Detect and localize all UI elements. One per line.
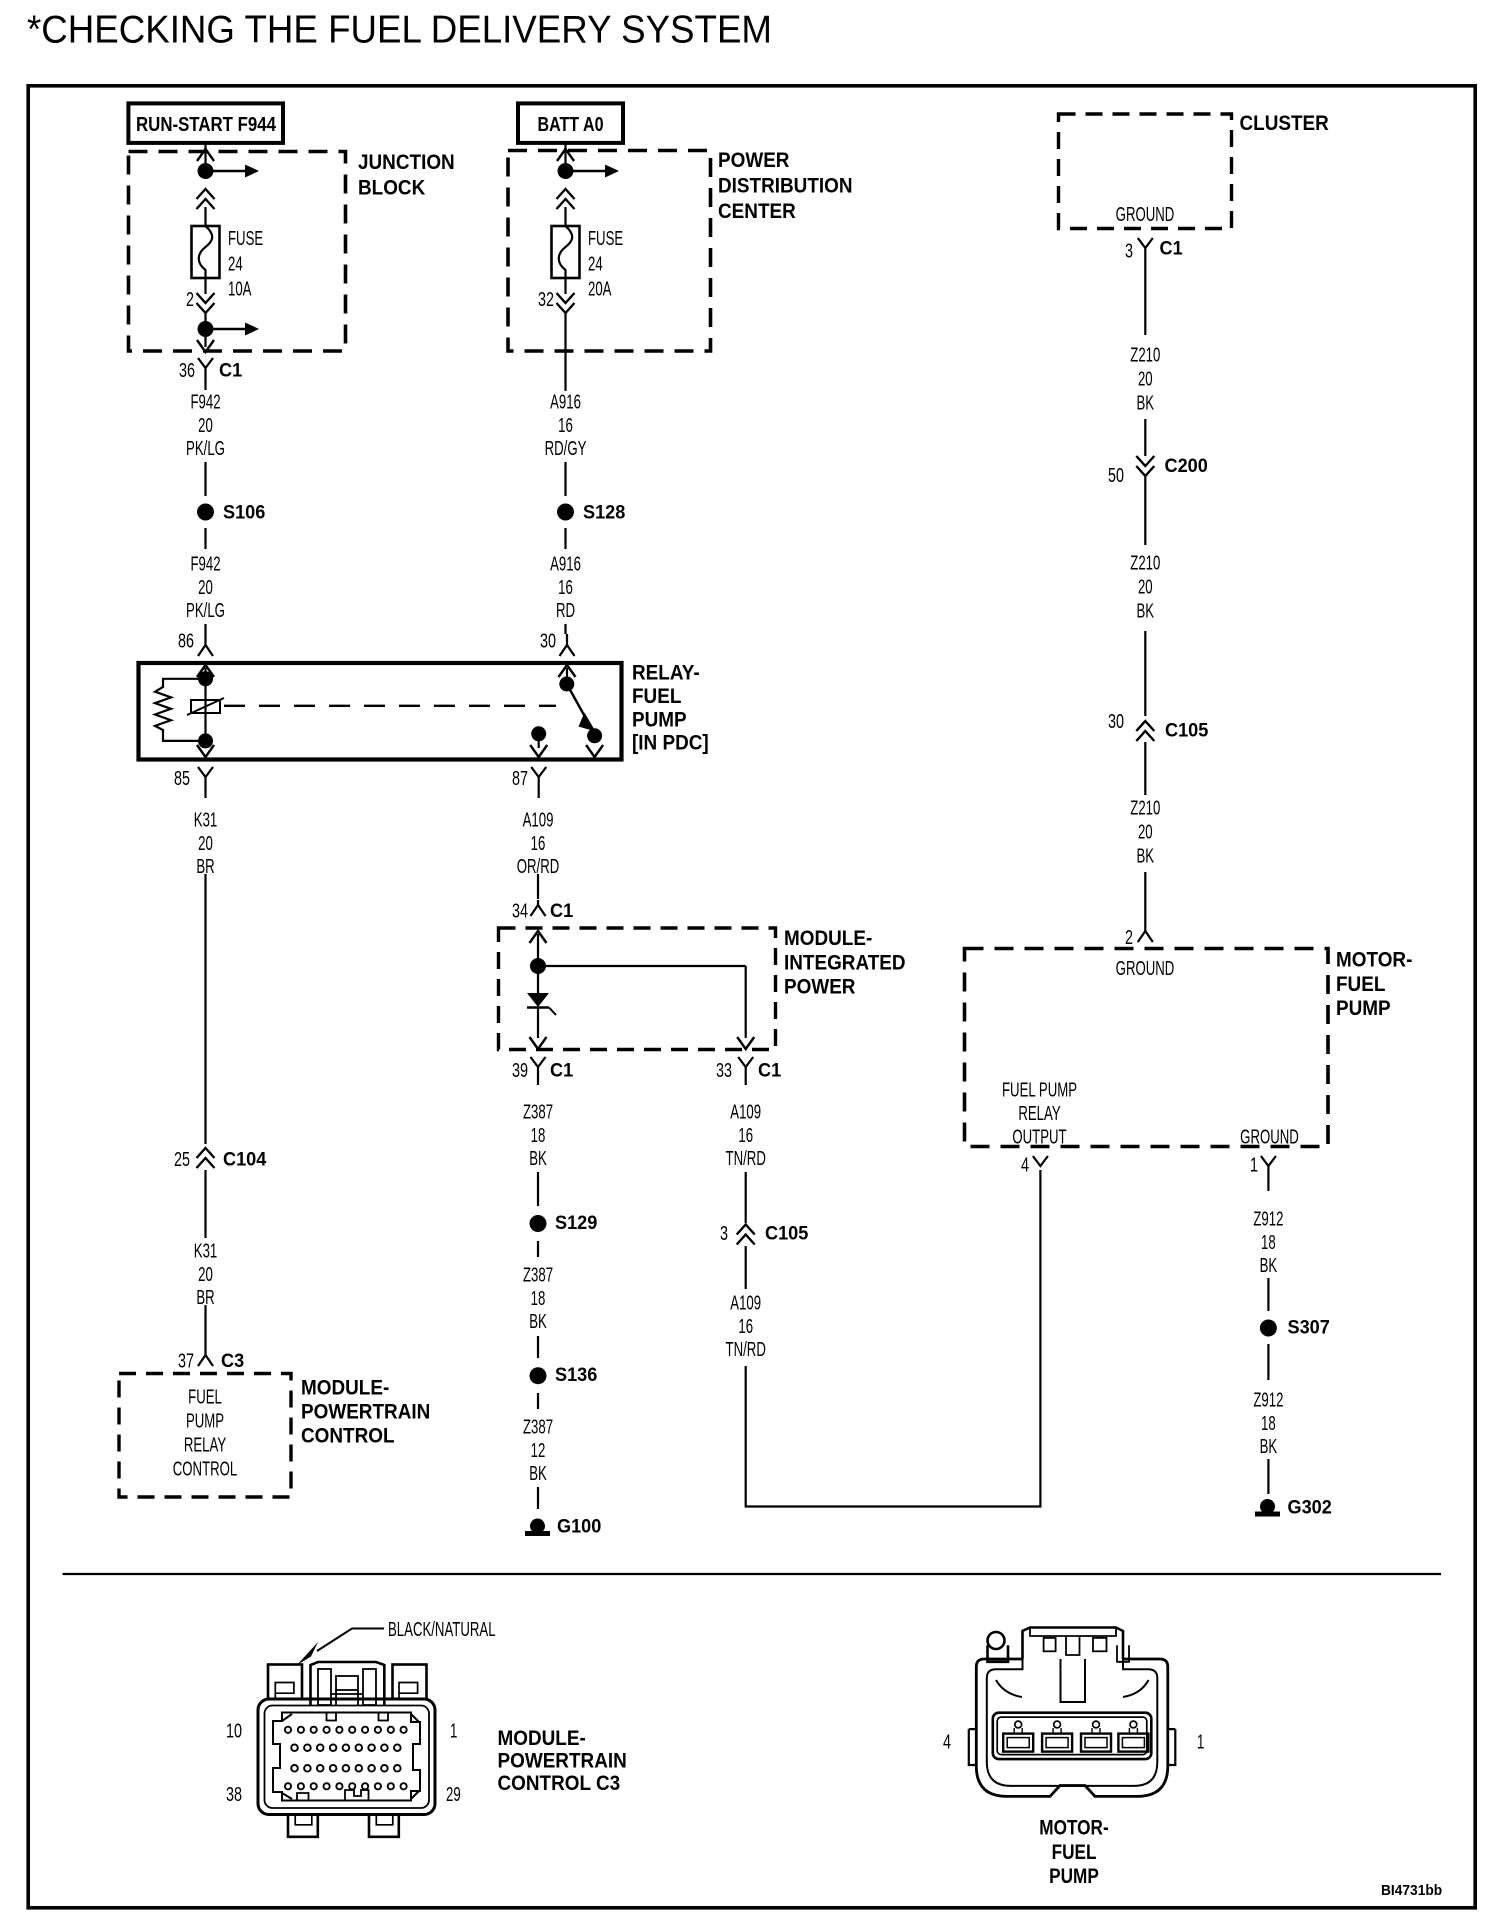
svg-text:3: 3 — [1125, 239, 1133, 262]
svg-text:BK: BK — [1260, 1435, 1278, 1457]
svg-text:C1: C1 — [550, 900, 573, 922]
double chevron up — [557, 189, 575, 209]
svg-text:25: 25 — [174, 1148, 190, 1171]
wire label A109 16 TN/RD — [726, 1101, 766, 1170]
relay coil element — [187, 698, 224, 715]
svg-text:16: 16 — [738, 1124, 753, 1146]
svg-text:29: 29 — [446, 1783, 461, 1805]
svg-text:TN/RD: TN/RD — [726, 1338, 766, 1360]
svg-text:PUMP: PUMP — [1336, 997, 1391, 1020]
wire Z387 — [537, 1487, 539, 1509]
wire A109 route to fuel pump pin 4 — [746, 1170, 1041, 1507]
wire label K31 20 BR — [194, 1240, 217, 1309]
connector C3 inner cavity — [273, 1713, 420, 1801]
svg-text:Z210: Z210 — [1130, 344, 1160, 366]
svg-text:INTEGRATED: INTEGRATED — [784, 951, 906, 974]
svg-text:20: 20 — [1138, 576, 1153, 598]
svg-text:BLACK/NATURAL: BLACK/NATURAL — [388, 1618, 496, 1640]
wire — [204, 207, 206, 226]
ground G302 — [1255, 1499, 1280, 1517]
inline connector C200 — [1136, 456, 1154, 476]
splice S129 — [530, 1215, 547, 1232]
relay linkage dashed line — [224, 705, 556, 707]
svg-text:POWER: POWER — [718, 149, 790, 172]
switch contact 87a — [587, 728, 602, 743]
fuse 24 20A (PDC) — [552, 226, 580, 278]
svg-text:FUSE: FUSE — [228, 227, 263, 249]
wire label A109 16 OR/RD — [517, 809, 560, 878]
svg-text:FUSE: FUSE — [588, 227, 623, 249]
relay pin 85 connector — [198, 767, 213, 798]
splice S307 — [1260, 1320, 1277, 1337]
svg-text:PK/LG: PK/LG — [186, 437, 225, 459]
svg-text:2: 2 — [186, 288, 194, 311]
wire inside MIP — [537, 1008, 539, 1038]
connector pin 2 motor-fuel pump — [1138, 929, 1153, 942]
wire label Z387 18 BK — [523, 1101, 553, 1170]
relay pin 87 connector — [531, 767, 546, 798]
wire Z387 — [537, 1241, 539, 1257]
connector motor-fuel pump terminals — [1003, 1721, 1148, 1752]
wire label F942 20 PK/LG — [186, 553, 225, 622]
svg-text:OUTPUT: OUTPUT — [1012, 1126, 1066, 1148]
splice S128 — [557, 504, 574, 521]
svg-text:18: 18 — [531, 1287, 546, 1309]
wire — [204, 313, 206, 329]
double chevron down — [557, 293, 575, 313]
label MODULE-INTEGRATED POWER — [784, 927, 906, 999]
junction block box — [129, 152, 346, 352]
svg-text:33: 33 — [716, 1059, 732, 1082]
svg-text:Z387: Z387 — [523, 1264, 553, 1286]
bus arrow right — [206, 323, 260, 336]
motor-fuel pump box — [965, 949, 1329, 1147]
svg-text:GROUND: GROUND — [1116, 957, 1175, 979]
svg-text:Z912: Z912 — [1253, 1389, 1283, 1411]
relay pin 85 exit chevron — [197, 745, 214, 757]
svg-text:34: 34 — [512, 899, 528, 922]
wire label A916 16 RD/GY — [545, 391, 587, 460]
svg-text:BK: BK — [1136, 845, 1154, 867]
svg-text:PUMP: PUMP — [632, 708, 687, 731]
svg-text:36: 36 — [179, 359, 195, 382]
svg-text:CONTROL C3: CONTROL C3 — [498, 1772, 621, 1795]
svg-text:MODULE-: MODULE- — [301, 1377, 389, 1400]
relay pin 30 — [560, 634, 575, 656]
wire — [564, 207, 566, 226]
relay-fuel pump box — [139, 663, 622, 760]
svg-text:32: 32 — [538, 288, 554, 311]
inline connector C105 — [737, 1225, 755, 1245]
svg-text:BI4731bb: BI4731bb — [1381, 1882, 1443, 1898]
svg-text:CENTER: CENTER — [718, 200, 796, 223]
module-powertrain control box — [119, 1374, 291, 1498]
svg-text:G100: G100 — [557, 1515, 601, 1537]
svg-text:Z210: Z210 — [1130, 552, 1160, 574]
svg-text:16: 16 — [558, 414, 573, 436]
svg-text:S307: S307 — [1288, 1316, 1330, 1338]
wire inside MIP — [537, 934, 539, 993]
wire label F942 20 PK/LG — [186, 391, 225, 460]
wire K31 — [204, 1170, 206, 1238]
svg-text:C1: C1 — [758, 1059, 781, 1081]
label MOTOR-FUEL PUMP — [1336, 949, 1412, 1021]
svg-text:A916: A916 — [550, 553, 581, 575]
svg-text:FUEL: FUEL — [1052, 1840, 1097, 1864]
svg-text:10: 10 — [226, 1719, 242, 1742]
wire Z387 — [537, 1172, 539, 1206]
svg-text:F942: F942 — [190, 553, 220, 575]
junction dot — [558, 163, 574, 179]
wire — [204, 337, 206, 347]
bus arrow right — [206, 165, 260, 178]
svg-text:RD: RD — [556, 599, 575, 621]
svg-text:24: 24 — [588, 253, 603, 275]
svg-text:BK: BK — [529, 1462, 547, 1484]
wire label A109 16 TN/RD — [726, 1292, 766, 1361]
separator line — [63, 1573, 1442, 1575]
wire K31 long — [204, 874, 206, 1144]
double chevron up — [197, 189, 215, 209]
svg-text:C3: C3 — [221, 1350, 244, 1372]
svg-text:FUEL PUMP: FUEL PUMP — [1002, 1079, 1077, 1101]
svg-text:Z210: Z210 — [1130, 797, 1160, 819]
wire label Z387 18 BK — [523, 1264, 553, 1333]
svg-text:20: 20 — [198, 832, 213, 854]
connector pin 3 C1 — [1138, 238, 1153, 248]
svg-text:CLUSTER: CLUSTER — [1240, 112, 1330, 135]
svg-text:BK: BK — [1136, 392, 1154, 414]
label FUEL PUMP RELAY CONTROL — [173, 1386, 238, 1480]
svg-text:C105: C105 — [765, 1222, 808, 1244]
wire F942 — [204, 528, 206, 549]
svg-text:DISTRIBUTION: DISTRIBUTION — [718, 174, 853, 197]
svg-text:Z387: Z387 — [523, 1101, 553, 1123]
wire Z387 — [537, 1393, 539, 1409]
svg-text:MOTOR-: MOTOR- — [1039, 1816, 1108, 1840]
splice S106 — [197, 504, 214, 521]
svg-text:38: 38 — [226, 1783, 242, 1806]
svg-text:20A: 20A — [588, 278, 612, 300]
svg-text:PK/LG: PK/LG — [186, 599, 225, 621]
svg-text:18: 18 — [1261, 1412, 1276, 1434]
module-integrated power box — [499, 928, 776, 1050]
svg-text:4: 4 — [1021, 1153, 1029, 1176]
wire — [204, 278, 206, 294]
wire Z210 — [1144, 872, 1146, 929]
svg-text:37: 37 — [178, 1349, 194, 1372]
svg-text:C1: C1 — [550, 1059, 573, 1081]
svg-text:1: 1 — [450, 1720, 457, 1742]
leader BLACK/NATURAL — [297, 1618, 496, 1665]
wire A109 — [745, 1172, 747, 1223]
inline connector C105 — [1136, 721, 1154, 741]
svg-text:85: 85 — [174, 767, 190, 790]
arrowhead feed into PDC — [557, 149, 574, 161]
connector C3 bottom keying bumps — [297, 1790, 369, 1801]
exit chevron junction block — [197, 340, 214, 352]
svg-text:CONTROL: CONTROL — [173, 1458, 238, 1480]
MIP entry chevron — [530, 931, 547, 943]
svg-text:K31: K31 — [194, 1240, 217, 1262]
connector pin 39 C1 — [531, 1057, 546, 1085]
svg-text:G302: G302 — [1288, 1496, 1332, 1518]
svg-text:FUEL: FUEL — [632, 685, 681, 708]
svg-text:K31: K31 — [194, 809, 217, 831]
svg-text:C1: C1 — [219, 359, 242, 381]
svg-text:C104: C104 — [223, 1148, 267, 1170]
svg-text:16: 16 — [558, 576, 573, 598]
wire A109 — [745, 1246, 747, 1289]
node RUN-START F944 feed box — [128, 103, 283, 142]
label FUEL PUMP RELAY OUTPUT — [1002, 1079, 1077, 1148]
svg-text:S129: S129 — [555, 1212, 597, 1234]
wire Z387 — [537, 1336, 539, 1358]
wire A916 — [564, 528, 566, 549]
wire Z210 — [1144, 476, 1146, 545]
wire Z210 — [1144, 742, 1146, 795]
label JUNCTION BLOCK — [358, 151, 455, 200]
svg-text:10A: 10A — [228, 278, 252, 300]
svg-text:3: 3 — [720, 1222, 728, 1245]
svg-text:PUMP: PUMP — [1049, 1864, 1099, 1888]
svg-text:BATT A0: BATT A0 — [538, 114, 604, 136]
wire A916 — [564, 462, 566, 496]
ground G100 — [525, 1519, 550, 1537]
power distribution center box — [508, 151, 711, 352]
wire label Z210 20 BK — [1130, 552, 1160, 622]
wire MIP branch down — [745, 966, 747, 1038]
relay pin 87 exit chevron — [530, 745, 547, 757]
connector C3 mounting tab top-left — [268, 1665, 302, 1700]
wire Z210 — [1144, 248, 1146, 335]
connector C3 body outline — [258, 1699, 435, 1815]
arrowhead feed into junction block — [197, 149, 214, 161]
svg-text:86: 86 — [178, 629, 194, 652]
label FUSE 24 10A — [228, 227, 263, 300]
svg-text:1: 1 — [1250, 1153, 1258, 1176]
label MOTOR-FUEL PUMP (connector) — [1039, 1816, 1108, 1889]
svg-text:20: 20 — [198, 1263, 213, 1285]
svg-text:GROUND: GROUND — [1116, 203, 1175, 225]
connector pin 34 C1 — [531, 900, 546, 916]
connector C3 latch — [311, 1662, 385, 1705]
wire Z210 — [1144, 419, 1146, 456]
wire A916 — [564, 313, 566, 391]
svg-text:30: 30 — [1108, 710, 1124, 733]
svg-text:18: 18 — [531, 1124, 546, 1146]
svg-text:CONTROL: CONTROL — [301, 1424, 395, 1447]
cluster box — [1059, 114, 1232, 229]
svg-text:FUEL: FUEL — [1336, 973, 1385, 996]
connector pin 4 motor-fuel pump — [1033, 1156, 1048, 1166]
svg-text:RELAY: RELAY — [1018, 1102, 1060, 1124]
coil junction bottom — [198, 733, 213, 748]
wire Z210 — [1144, 631, 1146, 716]
MIP exit chevron left — [530, 1037, 547, 1049]
svg-text:S136: S136 — [555, 1364, 597, 1386]
connector motor-fuel pump pin carrier — [969, 1713, 1176, 1765]
svg-text:RELAY: RELAY — [184, 1434, 226, 1456]
wire A109 — [537, 874, 539, 899]
svg-text:20: 20 — [1138, 368, 1153, 390]
wire Z912 — [1267, 1459, 1269, 1494]
svg-text:C200: C200 — [1165, 455, 1208, 477]
svg-text:4: 4 — [943, 1730, 951, 1753]
svg-text:MODULE-: MODULE- — [498, 1727, 586, 1750]
wire pin 87 — [538, 734, 540, 748]
label FUSE 24 20A — [588, 227, 623, 300]
connector C3 top keying notches — [327, 1713, 389, 1721]
svg-text:1: 1 — [1197, 1731, 1204, 1753]
svg-text:POWERTRAIN: POWERTRAIN — [301, 1401, 430, 1424]
wire Z912 — [1267, 1278, 1269, 1311]
connector C3 mounting tab top-right — [393, 1665, 427, 1700]
junction dot — [198, 163, 214, 179]
svg-text:F942: F942 — [190, 391, 220, 413]
svg-text:FUEL: FUEL — [188, 1386, 222, 1408]
wire relay common — [566, 668, 568, 684]
svg-text:JUNCTION: JUNCTION — [358, 151, 455, 174]
wire label A916 16 RD — [550, 553, 581, 622]
fuse 24 10A (junction block) — [192, 226, 220, 278]
svg-text:C1: C1 — [1160, 237, 1183, 259]
svg-text:A109: A109 — [523, 809, 554, 831]
node BATT A0 feed box — [518, 103, 623, 142]
svg-text:BLOCK: BLOCK — [358, 176, 426, 199]
label MODULE-POWERTRAIN CONTROL C3 — [498, 1727, 627, 1795]
wire coil — [204, 668, 206, 741]
switch contact 87 — [531, 726, 546, 741]
svg-text:16: 16 — [738, 1315, 753, 1337]
svg-text:A109: A109 — [730, 1101, 761, 1123]
svg-text:MODULE-: MODULE- — [784, 927, 872, 950]
svg-text:16: 16 — [531, 832, 546, 854]
wire label Z210 20 BK — [1130, 344, 1160, 414]
wire — [564, 278, 566, 294]
relay coil entry chevron — [197, 665, 214, 677]
wire label Z387 12 BK — [523, 1416, 553, 1485]
svg-text:POWER: POWER — [784, 976, 856, 999]
connector C3 mounting feet — [288, 1815, 399, 1837]
MIP junction dot — [530, 958, 546, 974]
svg-text:PUMP: PUMP — [186, 1410, 224, 1432]
switch pivot — [559, 677, 574, 692]
wire label Z210 20 BK — [1130, 797, 1160, 867]
svg-text:S106: S106 — [223, 501, 265, 523]
diode (MIP) — [527, 993, 556, 1015]
label MODULE-POWERTRAIN CONTROL — [301, 1377, 430, 1448]
svg-text:[IN PDC]: [IN PDC] — [632, 732, 709, 755]
junction dot — [198, 321, 214, 337]
svg-text:20: 20 — [198, 414, 213, 436]
coil junction top — [198, 671, 213, 686]
svg-text:RELAY-: RELAY- — [632, 661, 700, 684]
double chevron down — [197, 293, 215, 313]
wire Z912 — [1267, 1344, 1269, 1380]
inline connector C104 — [197, 1148, 215, 1168]
relay pin 30 entry chevron — [559, 665, 576, 677]
connector motor-fuel pump body — [976, 1659, 1168, 1796]
wire A916 — [564, 624, 566, 634]
splice S136 — [530, 1367, 547, 1384]
svg-text:BK: BK — [529, 1147, 547, 1169]
label RELAY-FUEL PUMP [IN PDC] — [632, 661, 709, 755]
wire label Z912 18 BK — [1253, 1389, 1283, 1458]
svg-text:Z912: Z912 — [1253, 1208, 1283, 1230]
svg-text:12: 12 — [531, 1439, 546, 1461]
connector C3 pin field — [285, 1727, 407, 1790]
wire F942 — [204, 624, 206, 634]
svg-text:20: 20 — [1138, 821, 1153, 843]
wire label Z912 18 BK — [1253, 1208, 1283, 1277]
bus arrow right — [566, 165, 620, 178]
wire K31 — [204, 1305, 206, 1351]
wire label K31 20 BR — [194, 809, 217, 878]
connector pin 36 C1 — [198, 358, 213, 390]
svg-text:A109: A109 — [730, 1292, 761, 1314]
relay unused contact exit chevron — [586, 745, 603, 757]
connector pin 1 motor-fuel pump — [1261, 1156, 1276, 1191]
relay switch arm — [567, 684, 596, 732]
svg-text:20: 20 — [198, 576, 213, 598]
svg-text:BK: BK — [529, 1310, 547, 1332]
wire feed — [564, 144, 566, 171]
svg-text:GROUND: GROUND — [1240, 1126, 1299, 1148]
svg-text:30: 30 — [540, 629, 556, 652]
wire MIP branch — [538, 965, 746, 967]
svg-text:POWERTRAIN: POWERTRAIN — [498, 1750, 627, 1773]
svg-text:50: 50 — [1108, 464, 1124, 487]
svg-text:S128: S128 — [583, 501, 625, 523]
wire F942 — [204, 462, 206, 496]
svg-text:RUN-START F944: RUN-START F944 — [136, 114, 277, 136]
svg-text:18: 18 — [1261, 1231, 1276, 1253]
MIP exit chevron right — [737, 1037, 754, 1049]
connector C3 corner keys — [282, 1714, 419, 1799]
svg-text:BK: BK — [1136, 600, 1154, 622]
svg-text:2: 2 — [1125, 926, 1133, 949]
svg-text:A916: A916 — [550, 391, 581, 413]
connector pin 37 C3 — [198, 1351, 213, 1366]
svg-text:Z387: Z387 — [523, 1416, 553, 1438]
svg-text:MOTOR-: MOTOR- — [1336, 949, 1412, 972]
svg-text:TN/RD: TN/RD — [726, 1147, 766, 1169]
svg-text:*CHECKING THE FUEL DELIVERY SY: *CHECKING THE FUEL DELIVERY SYSTEM — [27, 9, 772, 52]
relay pin 86 — [198, 634, 213, 656]
svg-text:24: 24 — [228, 253, 243, 275]
connector motor-fuel pump outline — [988, 1628, 1130, 1662]
connector pin 33 C1 — [738, 1057, 753, 1085]
resistor (relay coil shunt) — [155, 679, 206, 741]
label CLUSTER — [1240, 112, 1330, 135]
svg-text:39: 39 — [512, 1059, 528, 1082]
svg-text:RD/GY: RD/GY — [545, 437, 587, 459]
svg-text:BK: BK — [1260, 1254, 1278, 1276]
svg-text:C105: C105 — [1165, 719, 1208, 741]
wire feed — [204, 144, 206, 171]
svg-text:87: 87 — [512, 767, 528, 790]
label POWER DISTRIBUTION CENTER — [718, 149, 853, 223]
